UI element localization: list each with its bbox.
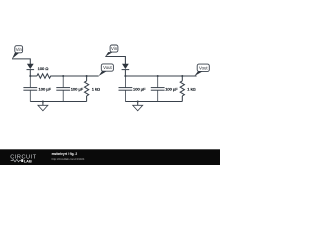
resistor R1 100 Ohm horizontal: [37, 66, 51, 78]
resistor R2 1k Ohm vertical (left circuit): [85, 76, 101, 102]
CircuitLab logo zigzag: [11, 159, 21, 161]
wire Vin to diode anode (left): [12, 59, 30, 64]
capacitor C2 100uF (left circuit, branch at node B): [56, 76, 83, 102]
wire R1 to node B: [50, 75, 63, 77]
diode D left: [27, 64, 35, 76]
node D junction dot (right, below diode): [124, 75, 126, 77]
svg-text:100 µF: 100 µF: [133, 86, 146, 91]
node A junction dot (left): [29, 75, 31, 77]
diode D right: [122, 64, 130, 76]
svg-text:msfarleyrt / fig. 2: msfarleyrt / fig. 2: [52, 152, 78, 156]
node F junction dot (right 1k resistor): [181, 75, 183, 77]
node C junction dot: [86, 75, 88, 77]
footer black bar: [0, 149, 220, 165]
svg-text:100 Ω: 100 Ω: [38, 66, 49, 71]
svg-text:Vout: Vout: [199, 65, 208, 70]
wire node C to Vout flag (left): [87, 75, 99, 77]
svg-text:Vout: Vout: [103, 65, 112, 70]
flag Vin right circuit: [105, 45, 118, 57]
node E junction dot (right cap B): [157, 75, 159, 77]
top rail wire (right circuit): [125, 75, 196, 77]
node B junction dot: [62, 75, 64, 77]
flag Vin left circuit: [12, 46, 23, 59]
svg-text:LAB: LAB: [24, 158, 32, 163]
wire node B to node C: [63, 75, 86, 77]
svg-text:100 µF: 100 µF: [39, 86, 52, 91]
svg-text:1 kΩ: 1 kΩ: [92, 86, 100, 91]
capacitor C1 100uF (left circuit, branch at node A): [23, 76, 51, 102]
wire node A to resistor R1: [30, 75, 37, 77]
ground symbol (right circuit): [133, 102, 143, 111]
flag Vout right circuit: [194, 64, 209, 76]
ground junction dot (right): [137, 100, 139, 102]
svg-text:100 µF: 100 µF: [165, 86, 178, 91]
ground junction dot (left): [42, 100, 44, 102]
capacitor C4 100uF (right circuit): [151, 76, 178, 102]
wire Vin to diode anode (right): [105, 57, 125, 65]
svg-text:Vin: Vin: [16, 47, 23, 52]
CircuitLab logo chip icon: [21, 159, 23, 162]
bottom rail wire (right circuit): [125, 101, 182, 103]
resistor R3 1k Ohm vertical (right circuit): [180, 76, 195, 102]
bottom rail wire (left circuit): [30, 101, 86, 103]
svg-text:1 kΩ: 1 kΩ: [187, 86, 195, 91]
svg-text:http://circuitlab.com/c19324: http://circuitlab.com/c19324: [52, 157, 85, 161]
svg-text:Vin: Vin: [111, 46, 118, 51]
svg-text:100 µF: 100 µF: [71, 86, 84, 91]
capacitor C3 100uF (right circuit, below diode): [119, 76, 147, 102]
flag Vout left circuit: [99, 64, 114, 76]
ground symbol (left circuit): [38, 102, 48, 111]
